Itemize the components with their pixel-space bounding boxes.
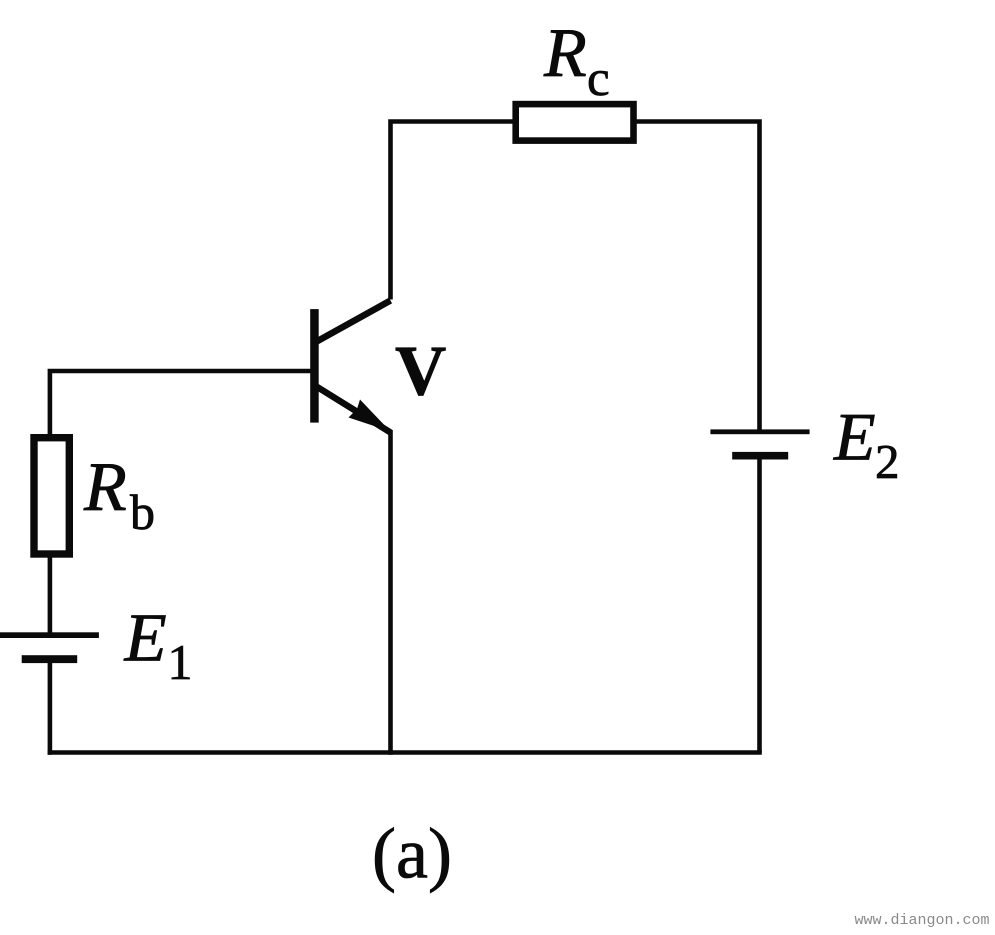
- svg-text:V: V: [395, 333, 446, 411]
- svg-text:E: E: [833, 399, 876, 475]
- svg-text:c: c: [587, 51, 610, 107]
- svg-text:1: 1: [168, 634, 193, 690]
- svg-text:www.diangon.com: www.diangon.com: [854, 912, 989, 929]
- svg-text:(a): (a): [372, 814, 452, 894]
- svg-text:R: R: [83, 449, 127, 526]
- svg-text:2: 2: [875, 434, 900, 489]
- svg-text:R: R: [543, 15, 587, 92]
- svg-text:b: b: [130, 484, 155, 540]
- svg-text:E: E: [124, 600, 167, 676]
